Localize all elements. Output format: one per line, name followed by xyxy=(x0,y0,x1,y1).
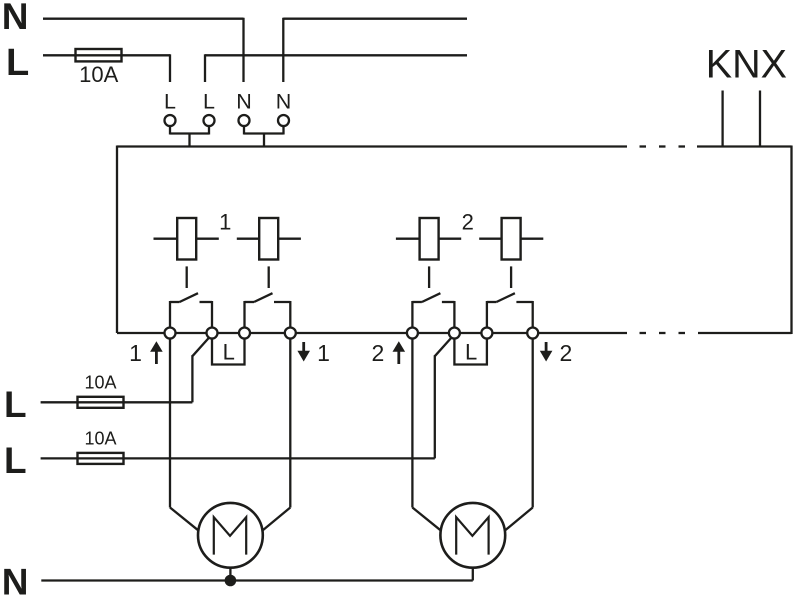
svg-text:KNX: KNX xyxy=(706,43,787,87)
svg-text:10A: 10A xyxy=(79,62,118,87)
svg-text:L: L xyxy=(6,42,29,84)
svg-text:L: L xyxy=(203,90,215,114)
svg-text:2: 2 xyxy=(372,340,385,366)
svg-text:N: N xyxy=(236,90,252,114)
svg-text:10A: 10A xyxy=(84,429,116,449)
svg-text:L: L xyxy=(4,384,27,425)
svg-text:L: L xyxy=(465,340,477,365)
svg-text:N: N xyxy=(276,90,292,114)
svg-text:L: L xyxy=(164,90,176,114)
svg-text:2: 2 xyxy=(560,340,573,366)
svg-text:1: 1 xyxy=(219,209,231,234)
svg-text:10A: 10A xyxy=(84,373,116,393)
svg-text:1: 1 xyxy=(317,340,330,366)
svg-text:2: 2 xyxy=(462,209,474,234)
svg-text:L: L xyxy=(4,440,27,481)
svg-text:N: N xyxy=(2,562,29,598)
svg-text:1: 1 xyxy=(129,340,142,366)
svg-text:L: L xyxy=(223,340,235,365)
svg-text:N: N xyxy=(2,0,29,37)
